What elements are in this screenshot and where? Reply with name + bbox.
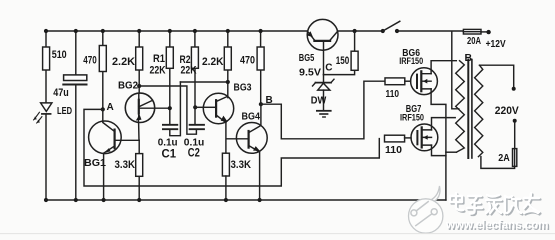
svg-text:110: 110 <box>386 88 400 100</box>
wire B-line to BG6 gate <box>261 81 385 139</box>
watermark logo <box>409 186 443 233</box>
svg-text:BG3: BG3 <box>234 81 252 93</box>
svg-text:LED: LED <box>57 105 72 117</box>
resistor 3.3K (right) <box>222 153 251 200</box>
resistor 150 <box>324 29 359 75</box>
resistor R510 <box>43 47 67 70</box>
wire BG3 emitter down + BG4 base <box>226 123 249 154</box>
svg-text:R1: R1 <box>153 53 165 65</box>
svg-text:20A: 20A <box>467 36 481 47</box>
wire BG1 base to BG2 emitter junction <box>115 139 139 141</box>
svg-text:BG4: BG4 <box>242 110 261 122</box>
wire BG2 base to C1 top node <box>139 107 170 109</box>
resistor 110 (top) <box>385 78 411 100</box>
svg-text:22K: 22K <box>150 64 166 76</box>
svg-text:www.elecfans.com: www.elecfans.com <box>445 220 548 232</box>
zener DW <box>311 75 334 111</box>
wire A-line to BG7 gate <box>84 109 379 186</box>
fuse 2A <box>498 149 517 167</box>
svg-text:110: 110 <box>385 144 402 156</box>
node A <box>101 102 114 113</box>
resistor 3.3K (left) <box>115 140 143 200</box>
transistor BG3 <box>203 81 251 123</box>
svg-text:C2: C2 <box>188 145 200 159</box>
wire +12V to transformer center tap <box>452 32 459 109</box>
resistor 470 (left) column <box>102 31 104 109</box>
LED D1 <box>34 103 73 123</box>
transistor BG1 <box>84 109 121 200</box>
secondary top lead + 220V terminal <box>480 65 520 148</box>
node BG2 collector <box>137 84 141 88</box>
wire W2: BG3 collector to C1 bottom hook <box>180 81 227 83</box>
mosfet BG7 <box>400 104 455 156</box>
switch S <box>381 21 464 33</box>
capacitor 47u <box>53 75 87 99</box>
svg-text:A: A <box>107 102 114 113</box>
node B <box>259 95 273 106</box>
svg-text:BG1: BG1 <box>84 157 106 169</box>
svg-text:470: 470 <box>240 54 255 66</box>
wire C1 bottom hook to W2 <box>170 82 181 136</box>
resistor 470 left <box>83 46 106 72</box>
resistor 2.2K (right) column <box>227 31 229 98</box>
transistor BG2 <box>118 79 155 140</box>
fuse 20A <box>463 29 505 50</box>
primary bottom lead <box>446 151 457 153</box>
secondary bottom lead <box>481 157 515 169</box>
node C1 top <box>168 106 172 110</box>
resistor R1 <box>150 47 174 76</box>
svg-text:+12V: +12V <box>486 38 506 50</box>
svg-text:BG5: BG5 <box>299 52 315 64</box>
junction dots on top rail <box>44 29 263 33</box>
svg-text:2A: 2A <box>498 152 510 164</box>
resistor 2.2K right <box>202 47 231 70</box>
svg-text:DW: DW <box>311 94 327 106</box>
transistor BG4 <box>236 104 267 200</box>
resistor 470 right <box>240 47 264 70</box>
svg-text:B: B <box>465 52 473 64</box>
svg-text:510: 510 <box>52 49 67 61</box>
wire C2 node to BG3 base <box>195 106 203 108</box>
capacitor C2 <box>184 125 205 160</box>
svg-text:C1: C1 <box>162 146 177 160</box>
svg-text:BG2: BG2 <box>118 79 138 91</box>
transistor BG5 <box>299 19 338 74</box>
ground <box>317 111 331 117</box>
bottom ground rail <box>46 199 446 201</box>
resistor R2 column + C2 top lead <box>194 31 196 124</box>
left column wire <box>45 31 47 200</box>
transformer B primary winding <box>456 61 465 153</box>
svg-text:150: 150 <box>336 55 350 67</box>
watermark chinese characters <box>452 195 541 216</box>
svg-text:3.3K: 3.3K <box>115 159 136 171</box>
resistor 2.2K (left) column <box>138 31 140 93</box>
svg-text:22K: 22K <box>181 64 197 76</box>
faint bottom artifact line <box>0 233 555 235</box>
capacitor 47u column <box>75 31 77 200</box>
node BG3 collector <box>226 80 230 84</box>
svg-text:IRF150: IRF150 <box>400 112 424 123</box>
junction dots on ground rail <box>44 198 262 202</box>
top supply rail <box>46 30 383 32</box>
svg-text:IRF150: IRF150 <box>399 56 423 67</box>
transformer core <box>467 60 469 159</box>
svg-text:47u: 47u <box>53 87 68 99</box>
node C2 top <box>193 105 197 109</box>
resistor R2 <box>180 47 199 76</box>
resistor 470 (right) column <box>260 31 262 104</box>
resistor 2.2K left <box>112 47 143 70</box>
svg-text:220V: 220V <box>495 105 520 117</box>
capacitor C1 <box>158 125 178 161</box>
svg-text:C: C <box>325 63 332 74</box>
resistor 110 (bottom) <box>385 135 412 156</box>
wire W1: BG2 collector to C2 bottom <box>139 86 196 134</box>
resistor R1 column + C1 top lead <box>169 31 171 124</box>
svg-text:2.2K: 2.2K <box>202 56 224 68</box>
svg-text:3.3K: 3.3K <box>231 159 252 171</box>
mosfet BG6 <box>399 48 456 200</box>
svg-text:9.5V: 9.5V <box>299 67 321 79</box>
svg-text:470: 470 <box>83 54 97 66</box>
svg-text:2.2K: 2.2K <box>112 56 135 68</box>
transformer secondary winding <box>475 65 483 156</box>
